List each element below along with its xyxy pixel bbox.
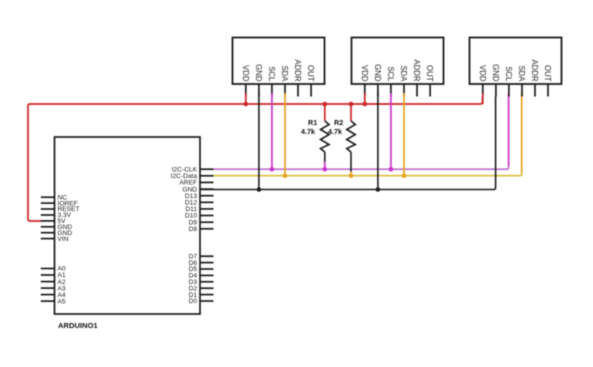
sensor module U4 box [470, 38, 562, 85]
svg-text:GND: GND [254, 64, 263, 82]
wire SCL drop magenta [390, 93, 392, 169]
Arduino ARDUINO1 box [55, 137, 201, 314]
pin D2 (right) [200, 287, 214, 289]
pin A5 (left) [41, 300, 55, 302]
svg-text:GND: GND [491, 64, 500, 82]
svg-text:SDA: SDA [280, 65, 289, 82]
pin D12 (right) [200, 201, 214, 203]
svg-text:VDD: VDD [360, 65, 369, 82]
svg-text:OUT: OUT [306, 65, 315, 82]
svg-text:R2: R2 [334, 118, 343, 127]
svg-text:VDD: VDD [241, 65, 250, 82]
pin GND (right) [200, 188, 214, 190]
junction dot orange [402, 173, 407, 178]
pin RESET (left) [41, 208, 55, 210]
pin ADDR of sensor U3 [416, 84, 418, 97]
wire SCL drop magenta [271, 93, 273, 169]
junction dot magenta R1 [323, 167, 328, 172]
svg-text:SDA: SDA [517, 65, 526, 82]
pin OUT of sensor U3 [429, 84, 431, 97]
wire SDA drop orange [403, 93, 405, 176]
pin 3.3V (left) [41, 214, 55, 216]
svg-text:VIN: VIN [58, 236, 69, 243]
svg-text:VDD: VDD [478, 65, 487, 82]
resistor R1 lead top (red) [324, 104, 326, 121]
svg-text:4.7k: 4.7k [328, 127, 342, 136]
wire GND drop black [258, 93, 260, 190]
wire SDA bus yellow [214, 173, 522, 176]
svg-text:R1: R1 [308, 118, 317, 127]
junction dot magenta [389, 167, 394, 172]
sensor module U3 box [352, 38, 444, 85]
wire VDD tail red [364, 93, 366, 104]
pin A0 (left) [41, 268, 55, 270]
pin SDA of sensor U4 [521, 84, 523, 97]
svg-text:ADDR: ADDR [530, 59, 539, 81]
pin D10 (right) [200, 215, 214, 217]
pin SCL of sensor U3 [390, 84, 392, 97]
wire SCL drop sensor3 magenta [508, 93, 510, 166]
pin D6 (right) [200, 262, 214, 264]
svg-text:ADDR: ADDR [293, 59, 302, 81]
junction dot red R1 [323, 102, 328, 107]
svg-text:D8: D8 [189, 226, 198, 233]
svg-text:OUT: OUT [543, 65, 552, 82]
wire VDD tail red [482, 93, 484, 104]
pin A1 (left) [41, 274, 55, 276]
pin I2C-Data (right) [200, 175, 214, 177]
svg-text:GND: GND [373, 64, 382, 82]
wire SCL bus violet [214, 166, 509, 169]
pin D4 (right) [200, 274, 214, 276]
pin VDD of sensor U3 [364, 84, 366, 97]
pin D7 (right) [200, 255, 214, 257]
pin A2 (left) [41, 281, 55, 283]
pin D9 (right) [200, 221, 214, 223]
pin GND (left) [41, 226, 55, 228]
resistor R2 zigzag body [347, 121, 356, 152]
svg-text:4.7k: 4.7k [301, 127, 315, 136]
pin GND of sensor U2 [258, 84, 260, 97]
junction dot orange [283, 173, 288, 178]
wire GND bus black [200, 97, 496, 190]
pin IOREF (left) [41, 202, 55, 204]
wire GND drop black [377, 93, 379, 190]
pin SDA of sensor U3 [403, 84, 405, 97]
resistor R1 lead bottom [324, 152, 326, 162]
junction dot red [363, 102, 368, 107]
pin 5V (left) [41, 220, 55, 222]
pin I2C-CLK (right) [200, 168, 214, 170]
pin NC (left) [41, 196, 55, 198]
junction dot black [376, 187, 381, 192]
pin VDD of sensor U2 [245, 84, 247, 97]
pin SDA of sensor U2 [284, 84, 286, 97]
pin D0 (right) [200, 300, 214, 302]
pin A3 (left) [41, 287, 55, 289]
resistor R2 lead bottom [350, 152, 352, 172]
junction dot red [244, 102, 249, 107]
pin D11 (right) [200, 208, 214, 210]
junction dot orange R2 [349, 173, 354, 178]
svg-text:ADDR: ADDR [412, 59, 421, 81]
pin VDD of sensor U4 [482, 84, 484, 97]
pin VIN (left) [41, 238, 55, 240]
wire SDA drop orange [284, 93, 286, 176]
resistor R2 lead top (red) [350, 104, 352, 121]
pin D5 (right) [200, 268, 214, 270]
resistor R1 zigzag body [321, 121, 330, 152]
pin OUT of sensor U4 [547, 84, 549, 97]
pin ADDR of sensor U4 [534, 84, 536, 97]
pin GND (left) [41, 232, 55, 234]
pin D8 (right) [200, 228, 214, 230]
pin D3 (right) [200, 281, 214, 283]
junction dot magenta [270, 167, 275, 172]
svg-text:SCL: SCL [386, 66, 395, 82]
sensor module U2 box [233, 38, 325, 85]
pin SCL of sensor U2 [271, 84, 273, 97]
svg-text:OUT: OUT [425, 65, 434, 82]
svg-text:ARDUINO1: ARDUINO1 [58, 321, 98, 330]
svg-text:SDA: SDA [399, 65, 408, 82]
svg-text:SCL: SCL [504, 66, 513, 82]
svg-text:A5: A5 [58, 298, 66, 305]
pin GND of sensor U4 [495, 84, 497, 97]
pin AREF (right) [200, 181, 214, 183]
pin D13 (right) [200, 195, 214, 197]
svg-text:D0: D0 [189, 298, 198, 305]
pin SCL of sensor U4 [508, 84, 510, 97]
wire 5V red: Arduino 5V to VDD bus [28, 97, 483, 222]
pin ADDR of sensor U2 [297, 84, 299, 97]
pin OUT of sensor U2 [310, 84, 312, 97]
pin D1 (right) [200, 294, 214, 296]
wire VDD tail red [245, 93, 247, 104]
junction dot black [257, 187, 262, 192]
pin GND of sensor U3 [377, 84, 379, 97]
pin A4 (left) [41, 294, 55, 296]
svg-text:SCL: SCL [267, 66, 276, 82]
junction dot red R2 [349, 102, 354, 107]
wire SDA drop sensor3 orange [521, 93, 523, 173]
